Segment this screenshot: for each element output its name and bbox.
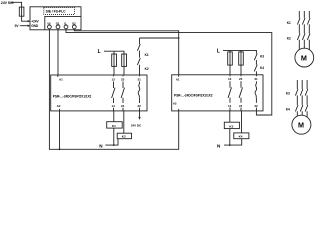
svg-text:K3: K3 [286, 92, 290, 96]
contactor K1 main contacts [297, 18, 310, 34]
svg-text:K3: K3 [229, 125, 233, 129]
fuse F4 [229, 52, 231, 75]
svg-text:K3: K3 [260, 55, 264, 59]
wire L to fuses F2 F3 [104, 51, 124, 54]
wire PLC I1 feedback loop right [66, 29, 272, 115]
wire PLC O1 to relay U2 A1 [57, 29, 59, 75]
PLC terminal O2 pin [72, 25, 76, 29]
PLC terminal 0V pin [48, 25, 52, 29]
motor M2 [292, 115, 311, 134]
svg-text:0V: 0V [15, 24, 20, 28]
contact K3 NC aux (right EDM) [254, 53, 257, 64]
motor M1 [295, 48, 314, 67]
wire 0V to PLC GND terminal [20, 25, 28, 27]
svg-text:24V SIG: 24V SIG [1, 1, 14, 5]
U2 contact 13-14 [112, 75, 115, 111]
U2 terminal A2 [59, 109, 61, 111]
wire 24V SIG to fuse F1 [11, 2, 22, 7]
wire L to fuses F4 F5 and EDM chain [223, 50, 256, 53]
arrow 24V DC [138, 117, 140, 120]
svg-text:31: 31 [254, 77, 258, 81]
contact K4 NC aux (right EDM) [254, 65, 257, 75]
safety relay U2 box [51, 75, 147, 111]
wire N rail right [224, 139, 242, 145]
svg-text:K2: K2 [122, 135, 126, 139]
fuse F1 [21, 7, 23, 16]
contactor coil K3 [224, 122, 239, 128]
fuse F2 [113, 54, 115, 75]
wire left EDM chain to O2 net [140, 37, 179, 39]
svg-text:13: 13 [228, 77, 232, 81]
PLC U1 box [30, 7, 81, 30]
safety relay U3 box [172, 75, 263, 111]
wire N rail left [105, 139, 118, 145]
svg-text:K2: K2 [145, 67, 149, 71]
U2 terminal A1 [57, 75, 59, 77]
wire U2 32 to 24V DC supply [139, 111, 141, 117]
arrow into GND terminal [28, 25, 31, 27]
svg-text:K1: K1 [287, 21, 291, 25]
svg-text:24: 24 [239, 104, 243, 108]
U3 contact 31-32 NC [255, 75, 257, 111]
wire relay U2 A2 to GND rail [59, 111, 61, 149]
svg-text:+24V: +24V [31, 20, 39, 24]
svg-text:A1: A1 [176, 78, 180, 82]
svg-text:A2: A2 [173, 101, 177, 105]
svg-text:K4: K4 [239, 134, 243, 138]
svg-text:K4: K4 [286, 108, 290, 112]
wire U3 14 to coil K3 [229, 111, 231, 122]
svg-text:L: L [98, 49, 101, 55]
wire PLC O2 to relay U3 A1 [74, 29, 178, 75]
wire PLC 0V to GND rail to relay U3 A2 [49, 29, 178, 150]
wire fuse F1 to PLC +24V terminal [22, 16, 28, 21]
svg-text:32: 32 [138, 104, 142, 108]
svg-text:M: M [298, 121, 304, 130]
U2 contact 31-32 NC [138, 75, 140, 111]
svg-text:A2: A2 [57, 104, 61, 108]
contactor K2 main contacts [297, 33, 310, 49]
svg-text:N: N [99, 143, 103, 148]
svg-text:14: 14 [228, 104, 232, 108]
svg-text:23: 23 [121, 77, 125, 81]
svg-text:PSR-...-24DC/FSP/2X1/1X2: PSR-...-24DC/FSP/2X1/1X2 [53, 95, 92, 99]
contactor K3 main contacts [295, 89, 307, 105]
PLC terminal I1 pin [64, 25, 68, 29]
wire U2 24 to coil K2 [123, 111, 125, 133]
svg-text:SIE / FS-PLC: SIE / FS-PLC [46, 10, 67, 14]
svg-text:32: 32 [254, 104, 258, 108]
PLC label frame [44, 8, 75, 15]
contactor coil K4 [234, 133, 249, 139]
U3 contact 13-14 [228, 75, 231, 111]
fuse F5 [240, 52, 242, 75]
svg-text:13: 13 [112, 77, 116, 81]
PLC terminal strip box [45, 16, 81, 29]
contactor coil K1 [107, 122, 123, 128]
wire U3 24 to coil K4 [241, 111, 243, 133]
wire coil K1 to N rail [113, 128, 115, 145]
svg-text:A1: A1 [59, 78, 63, 82]
svg-text:24: 24 [121, 104, 125, 108]
U3 terminal A2 [178, 109, 180, 111]
three-phase supply lower [297, 80, 307, 89]
svg-text:0V: 0V [47, 21, 51, 25]
svg-text:31: 31 [138, 77, 142, 81]
svg-text:L: L [217, 48, 220, 54]
svg-text:K4: K4 [260, 66, 264, 70]
svg-text:K1: K1 [112, 124, 116, 128]
U3 contact 23-24 [239, 75, 242, 111]
PLC terminal O1 pin [56, 25, 60, 29]
U3 terminal A1 [178, 75, 180, 77]
contactor coil K2 [117, 133, 131, 139]
three-phase supply upper [299, 11, 309, 18]
contact K2 NC aux (left EDM) [137, 58, 140, 75]
svg-text:N: N [217, 143, 221, 148]
contact K1 NC aux (left EDM) [137, 38, 140, 58]
svg-text:M: M [301, 54, 307, 63]
wire U2 14 to coil K1 [113, 111, 115, 122]
svg-text:K1: K1 [145, 53, 149, 57]
wire coil K3 to N rail [229, 129, 231, 146]
svg-text:24V DC: 24V DC [131, 123, 142, 127]
U2 contact 23-24 [121, 75, 124, 111]
svg-text:O2: O2 [72, 21, 76, 25]
fuse F3 [123, 54, 125, 75]
svg-text:K2: K2 [287, 37, 291, 41]
svg-text:14: 14 [112, 104, 116, 108]
arrow into +24V terminal [28, 20, 31, 22]
svg-text:O1: O1 [56, 21, 60, 25]
contactor K4 main contacts [295, 105, 307, 117]
svg-text:GND: GND [31, 24, 39, 28]
svg-text:23: 23 [239, 77, 243, 81]
svg-text:PSR-...-24DC/FSP/2X1/1X2: PSR-...-24DC/FSP/2X1/1X2 [174, 94, 213, 98]
